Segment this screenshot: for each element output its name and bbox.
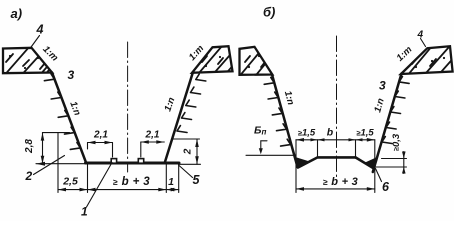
slope ratio 1:m (fig б right) — [395, 44, 415, 64]
dimension 2,8 (fig a left) — [41, 133, 45, 164]
svg-text:1:n: 1:n — [282, 90, 296, 107]
dimension text >=1,5 right (fig б) — [356, 128, 374, 139]
spoil bank (fig б right) — [401, 46, 454, 82]
figure label б) — [263, 5, 275, 20]
dimension text >=1,5 left (fig б) — [298, 128, 316, 139]
bottom dimension extension lines (fig a) — [88, 164, 179, 193]
trench slope line (fig a right) — [165, 72, 193, 163]
spoil bank (fig б left) — [238, 47, 275, 80]
leader for label 4 (fig б) — [421, 39, 426, 47]
slope hachure ticks (fig б left) — [264, 77, 290, 146]
level mark Бп — [254, 125, 266, 137]
toe wedge right (fig б) — [365, 157, 378, 169]
svg-text:≥0,3: ≥0,3 — [391, 133, 402, 151]
svg-text:2: 2 — [25, 169, 33, 183]
svg-text:2,1: 2,1 — [145, 130, 160, 141]
svg-text:5: 5 — [193, 173, 201, 187]
label 5 with leader (fig a) — [193, 173, 201, 187]
level line — [246, 154, 295, 156]
svg-text:b: b — [327, 127, 334, 139]
slope ratio 1:n (fig б left) — [282, 90, 296, 107]
svg-text:≥1,5: ≥1,5 — [298, 128, 316, 139]
centerline (fig б) — [336, 36, 338, 178]
slope hachure ticks (fig б right) — [382, 77, 409, 144]
slope ratio 1:n (fig a left) — [67, 100, 82, 117]
svg-text:4: 4 — [417, 30, 424, 41]
svg-text:1:n: 1:n — [162, 96, 177, 113]
trench slope line (fig б left) — [272, 75, 298, 168]
slope hachure ticks (fig a right) — [177, 74, 206, 132]
slope ratio 1:m (fig a left) — [40, 44, 60, 64]
svg-text:1: 1 — [168, 176, 174, 188]
svg-text:2,5: 2,5 — [62, 176, 78, 188]
label 1 with leader (fig a) — [81, 205, 88, 219]
svg-text:2,1: 2,1 — [93, 130, 108, 141]
trench bottom thick line (fig a) — [86, 162, 180, 165]
spoil bank (fig a left) — [2, 46, 60, 84]
level mark symbol (down arrow) — [259, 141, 267, 154]
figure label а) — [11, 6, 23, 21]
dimension 2,1 left (fig a) — [88, 141, 113, 157]
trench slope line (fig a left) — [52, 73, 86, 163]
bottom right extension line (fig a right) — [179, 163, 201, 165]
bench top extension line (fig a right) — [173, 138, 200, 140]
label 6 with leader (fig б) — [382, 180, 390, 194]
leader for label 4 — [30, 36, 40, 49]
marker square left (fig a) — [111, 159, 116, 164]
centerline (fig a) — [127, 42, 129, 172]
dimension 2,5 (fig a) — [58, 188, 88, 192]
svg-text:1:n: 1:n — [372, 97, 387, 114]
svg-text:1:n: 1:n — [67, 100, 82, 117]
chained dimension line 1,5 / b / 1,5 (fig б) — [296, 138, 375, 193]
svg-text:6: 6 — [382, 180, 390, 194]
dimension >=0,3 (fig б right) — [375, 152, 407, 174]
svg-text:2,8: 2,8 — [24, 139, 35, 154]
slope ratio 1:m (fig a right) — [187, 43, 207, 63]
trench bottom profile (fig б) — [298, 157, 356, 167]
thin bottom extension to the left with arrow (fig a) — [36, 163, 86, 165]
svg-text:Бп: Бп — [254, 125, 266, 137]
svg-text:1:m: 1:m — [395, 44, 415, 64]
svg-text:а): а) — [11, 6, 23, 21]
svg-text:3: 3 — [68, 68, 75, 82]
svg-text:≥ b + 3: ≥ b + 3 — [323, 176, 358, 188]
dimension >=b+3 (fig б) — [296, 187, 375, 191]
svg-text:2: 2 — [183, 148, 194, 155]
slope ratio 1:n (fig a right) — [162, 96, 177, 113]
dimension text b (fig б) — [327, 127, 334, 139]
bench top line (fig a left) — [43, 132, 70, 134]
label 4 (fig б) — [417, 30, 424, 41]
dimension 1 (fig a) — [166, 188, 178, 192]
label 4 (fig a) — [36, 23, 44, 37]
svg-text:≥ b + 3: ≥ b + 3 — [113, 176, 150, 188]
toe wedge left (fig б) — [294, 157, 311, 169]
svg-text:4: 4 — [36, 23, 44, 37]
bench vertical line / extension (fig a left) — [57, 133, 59, 193]
label 2 with leader (fig a) — [25, 169, 33, 183]
dimension 2 (fig a right) — [195, 139, 199, 164]
dimension 2,1 right (fig a) — [141, 140, 165, 157]
trench slope line (fig б right) — [373, 74, 402, 173]
marker square right (fig a) — [138, 159, 143, 164]
spoil bank (fig a right) — [192, 46, 244, 80]
label 3 (fig б) — [379, 79, 386, 93]
svg-text:б): б) — [263, 5, 275, 20]
dimension >=b+3 (fig a) — [88, 188, 167, 192]
svg-text:3: 3 — [379, 79, 386, 93]
label 3 (fig a) — [68, 68, 75, 82]
slope hachure ticks (fig a left) — [44, 74, 80, 150]
slope ratio 1:n (fig б right) — [372, 97, 387, 114]
svg-text:≥1,5: ≥1,5 — [356, 128, 374, 139]
